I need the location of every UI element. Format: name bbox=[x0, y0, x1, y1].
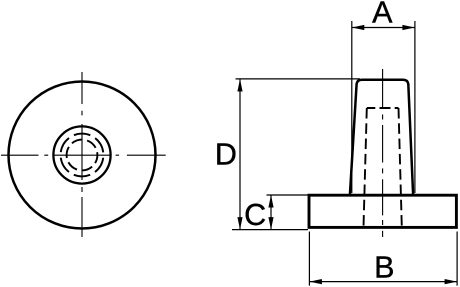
svg-text:D: D bbox=[215, 137, 237, 171]
svg-text:B: B bbox=[374, 251, 394, 285]
svg-text:A: A bbox=[372, 0, 393, 30]
svg-text:C: C bbox=[244, 198, 266, 232]
